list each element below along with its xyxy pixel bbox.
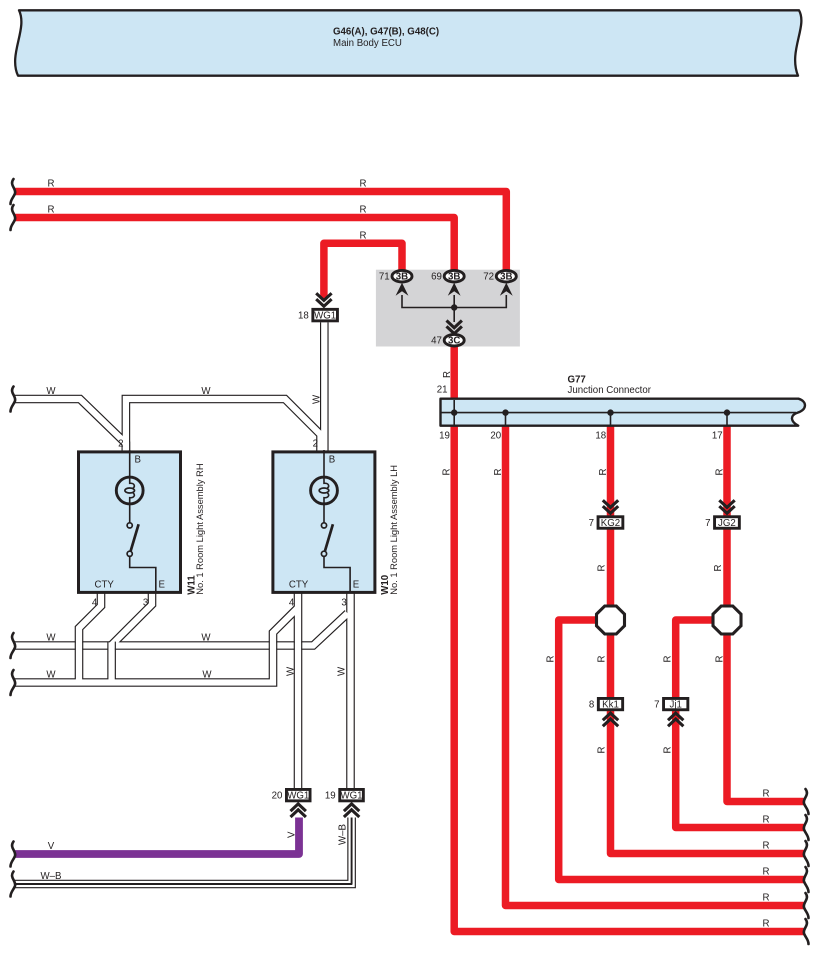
svg-text:3: 3 (341, 598, 346, 609)
svg-text:No. 1 Room Light Assembly RH: No. 1 Room Light Assembly RH (195, 463, 205, 594)
svg-text:3C: 3C (448, 335, 460, 346)
svg-text:R: R (763, 815, 770, 826)
svg-text:WG1: WG1 (287, 791, 309, 802)
svg-text:R: R (713, 565, 724, 572)
svg-text:3B: 3B (448, 271, 460, 282)
svg-text:No. 1 Room Light Assembly LH: No. 1 Room Light Assembly LH (389, 465, 399, 595)
svg-text:R: R (360, 205, 367, 216)
svg-text:CTY: CTY (95, 580, 115, 591)
svg-text:R: R (442, 371, 453, 378)
svg-text:7: 7 (705, 518, 710, 529)
svg-text:20: 20 (272, 791, 283, 802)
svg-text:Junction Connector: Junction Connector (568, 385, 652, 396)
svg-text:71: 71 (379, 271, 390, 282)
svg-text:3: 3 (143, 598, 148, 609)
svg-text:72: 72 (483, 271, 494, 282)
svg-text:R: R (48, 179, 55, 190)
svg-text:R: R (442, 469, 453, 476)
svg-text:V: V (48, 841, 55, 852)
svg-text:R: R (763, 867, 770, 878)
svg-text:W: W (46, 633, 56, 644)
svg-text:69: 69 (431, 271, 442, 282)
svg-text:19: 19 (325, 791, 336, 802)
svg-text:R: R (48, 205, 55, 216)
svg-text:R: R (360, 179, 367, 190)
svg-text:21: 21 (437, 385, 448, 396)
svg-text:W: W (312, 394, 323, 404)
svg-text:B: B (135, 455, 141, 466)
svg-text:W: W (46, 670, 56, 681)
svg-text:3B: 3B (396, 271, 408, 282)
svg-text:R: R (763, 893, 770, 904)
svg-text:W–B: W–B (338, 824, 349, 845)
svg-text:R: R (715, 469, 726, 476)
svg-text:R: R (763, 919, 770, 930)
svg-text:B: B (329, 455, 335, 466)
svg-text:19: 19 (439, 431, 450, 442)
svg-text:W: W (201, 386, 211, 397)
svg-text:Kk1: Kk1 (602, 700, 619, 711)
svg-text:4: 4 (289, 598, 295, 609)
svg-text:2: 2 (313, 439, 318, 450)
svg-text:R: R (597, 747, 608, 754)
svg-text:R: R (597, 656, 608, 663)
svg-text:R: R (663, 747, 674, 754)
svg-text:7: 7 (589, 518, 594, 529)
svg-text:20: 20 (490, 431, 501, 442)
svg-text:8: 8 (589, 700, 594, 711)
svg-text:G46(A), G47(B), G48(C): G46(A), G47(B), G48(C) (333, 27, 439, 38)
svg-text:W–B: W–B (41, 871, 62, 882)
svg-text:18: 18 (595, 431, 606, 442)
svg-text:E: E (353, 580, 360, 591)
svg-text:R: R (597, 565, 608, 572)
svg-text:W: W (201, 633, 211, 644)
svg-text:JG2: JG2 (718, 518, 736, 529)
svg-text:WG1: WG1 (341, 791, 363, 802)
svg-text:W: W (202, 670, 212, 681)
svg-text:G77: G77 (568, 374, 586, 385)
svg-text:W: W (286, 666, 297, 676)
svg-text:CTY: CTY (289, 580, 309, 591)
svg-text:E: E (159, 580, 166, 591)
svg-text:7: 7 (654, 700, 659, 711)
svg-text:W: W (337, 666, 348, 676)
svg-text:17: 17 (712, 431, 723, 442)
svg-text:Jj1: Jj1 (670, 700, 682, 711)
svg-text:47: 47 (431, 335, 442, 346)
svg-text:W: W (46, 386, 56, 397)
svg-text:R: R (598, 469, 609, 476)
svg-text:R: R (663, 656, 674, 663)
svg-text:R: R (715, 656, 726, 663)
svg-text:R: R (360, 231, 367, 242)
svg-text:R: R (493, 469, 504, 476)
svg-text:WG1: WG1 (314, 311, 336, 322)
svg-text:4: 4 (92, 598, 98, 609)
svg-text:2: 2 (118, 439, 123, 450)
svg-text:18: 18 (298, 311, 309, 322)
svg-text:R: R (546, 656, 557, 663)
svg-text:KG2: KG2 (601, 518, 620, 529)
svg-text:Main Body ECU: Main Body ECU (333, 38, 402, 49)
svg-text:V: V (287, 831, 298, 838)
svg-text:R: R (763, 789, 770, 800)
svg-text:R: R (763, 841, 770, 852)
svg-text:3B: 3B (500, 271, 512, 282)
